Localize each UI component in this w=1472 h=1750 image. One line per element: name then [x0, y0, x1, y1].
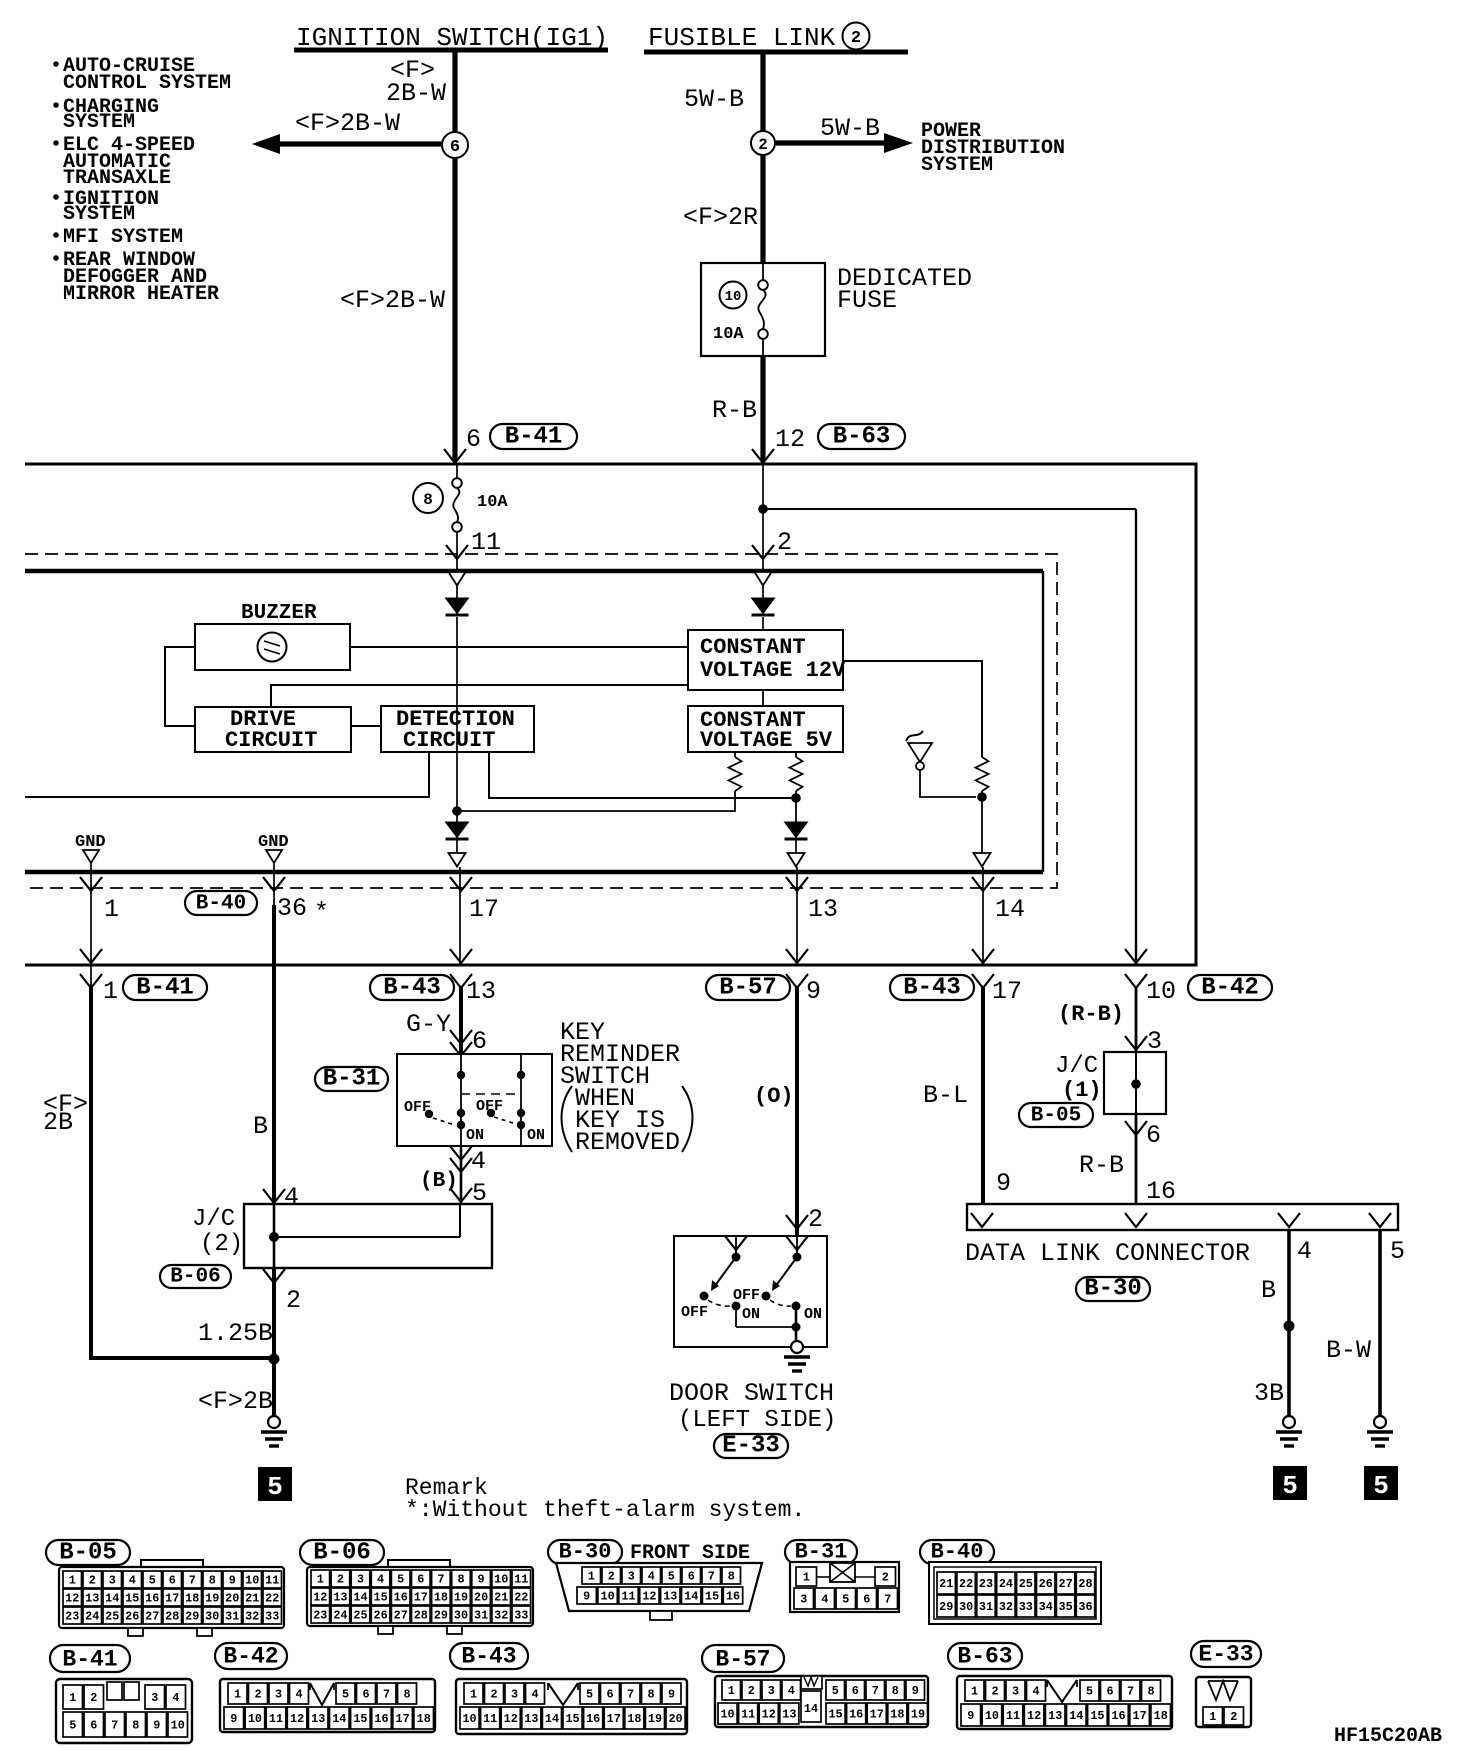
svg-text:4: 4	[172, 1691, 179, 1705]
svg-text:7: 7	[627, 1688, 634, 1702]
svg-text:8: 8	[457, 1573, 464, 1587]
svg-text:22: 22	[959, 1577, 973, 1591]
svg-text:11: 11	[1006, 1709, 1020, 1723]
svg-text:B-05: B-05	[1031, 1105, 1081, 1128]
page link 5 mid	[1273, 1466, 1307, 1500]
svg-text:21: 21	[245, 1592, 259, 1606]
svg-text:17: 17	[870, 1708, 884, 1722]
svg-text:2: 2	[608, 1570, 615, 1584]
svg-text:9: 9	[153, 1719, 160, 1733]
svg-text:E-33: E-33	[1198, 1642, 1253, 1668]
svg-text:3: 3	[800, 1593, 807, 1607]
svg-text:17: 17	[607, 1712, 621, 1726]
svg-text:21: 21	[494, 1591, 508, 1605]
svg-text:B-L: B-L	[923, 1081, 968, 1110]
svg-text:MIRROR HEATER: MIRROR HEATER	[63, 283, 219, 306]
junction connector J/C(2)	[244, 1204, 492, 1268]
svg-text:11: 11	[621, 1590, 635, 1604]
svg-text:VOLTAGE 12V: VOLTAGE 12V	[700, 658, 846, 683]
svg-text:B-63: B-63	[957, 1644, 1012, 1670]
wire: pin 36 ground lead	[273, 863, 275, 907]
constant voltage 12V block	[688, 630, 843, 690]
node 2 on fusible link feed	[751, 131, 775, 155]
wire: (O) lead to door switch	[795, 986, 799, 1236]
connector chevron pin 12 into unit	[752, 449, 774, 463]
svg-text:20: 20	[668, 1712, 682, 1726]
svg-text:<F>2B-W: <F>2B-W	[340, 286, 445, 315]
svg-text:3: 3	[628, 1570, 635, 1584]
mechanical link dashes	[461, 1093, 518, 1095]
svg-text:16: 16	[1111, 1709, 1125, 1723]
svg-text:(1): (1)	[1062, 1078, 1102, 1103]
svg-text:7: 7	[437, 1573, 444, 1587]
svg-text:23: 23	[313, 1609, 327, 1623]
svg-text:2B: 2B	[43, 1108, 73, 1137]
svg-text:33: 33	[514, 1609, 528, 1623]
svg-text:27: 27	[394, 1609, 408, 1623]
svg-text:10: 10	[1146, 977, 1176, 1006]
svg-text:1: 1	[470, 1688, 477, 1702]
svg-text:1.25B: 1.25B	[198, 1319, 273, 1348]
connector B-31 pinout	[785, 1540, 857, 1564]
connector B-57 pinout	[702, 1645, 784, 1672]
svg-text:27: 27	[1059, 1577, 1073, 1591]
svg-text:9: 9	[996, 1169, 1011, 1198]
ground DLC4	[1283, 1416, 1295, 1428]
fuse 8 10A inside unit	[456, 463, 458, 479]
svg-text:34: 34	[1039, 1600, 1053, 1614]
svg-text:25: 25	[1019, 1577, 1033, 1591]
svg-text:OFF: OFF	[404, 1099, 431, 1116]
left system list	[53, 61, 59, 67]
door switch ground	[791, 1341, 803, 1353]
svg-text:26: 26	[125, 1610, 139, 1624]
svg-text:3B: 3B	[1254, 1379, 1284, 1408]
wire: pin 1 ground lead	[90, 863, 92, 988]
svg-text:2B-W: 2B-W	[386, 79, 446, 108]
svg-text:12: 12	[775, 425, 805, 454]
svg-text:5: 5	[397, 1573, 404, 1587]
junction to B-42 branch	[758, 504, 768, 514]
svg-text:7: 7	[1127, 1685, 1134, 1699]
svg-text:9: 9	[583, 1590, 590, 1604]
svg-text:14: 14	[332, 1712, 346, 1726]
svg-text:2: 2	[758, 136, 768, 154]
svg-text:7: 7	[189, 1574, 196, 1588]
svg-text:26: 26	[374, 1609, 388, 1623]
svg-text:23: 23	[979, 1577, 993, 1591]
svg-text:B-05: B-05	[59, 1540, 117, 1567]
svg-text:6: 6	[466, 425, 481, 454]
svg-text:B-43: B-43	[383, 975, 441, 1002]
svg-text:(LEFT SIDE): (LEFT SIDE)	[678, 1407, 836, 1434]
svg-text:10: 10	[171, 1719, 185, 1733]
svg-text:7: 7	[872, 1684, 879, 1698]
wire: IG1 feed vertical 2B-W	[452, 52, 457, 461]
svg-text:29: 29	[939, 1600, 953, 1614]
wire: fusible link feed vertical 5W-B	[760, 54, 765, 264]
wire: key reminder to J/C(2) pin5	[450, 1146, 472, 1160]
svg-text:9: 9	[230, 1712, 237, 1726]
svg-text:32: 32	[999, 1600, 1013, 1614]
svg-text:13: 13	[333, 1591, 347, 1605]
svg-text:26: 26	[1039, 1577, 1053, 1591]
wire: branch arrow to power distribution	[776, 140, 886, 145]
svg-text:R-B: R-B	[712, 396, 757, 425]
svg-text:22: 22	[514, 1591, 528, 1605]
svg-text:10: 10	[985, 1709, 999, 1723]
svg-text:DATA LINK CONNECTOR: DATA LINK CONNECTOR	[965, 1239, 1250, 1268]
svg-text:SYSTEM: SYSTEM	[63, 111, 135, 134]
pin 14 triangle	[974, 853, 991, 867]
svg-text:3: 3	[275, 1688, 282, 1702]
svg-text:20: 20	[225, 1592, 239, 1606]
svg-text:6: 6	[863, 1593, 870, 1607]
svg-text:CIRCUIT: CIRCUIT	[225, 728, 317, 753]
svg-text:10: 10	[462, 1712, 476, 1726]
svg-text:17: 17	[165, 1592, 179, 1606]
connector B-30 pinout	[548, 1540, 622, 1564]
svg-text:12: 12	[313, 1591, 327, 1605]
svg-text:B-41: B-41	[505, 424, 563, 451]
chevrons B-31 pin 6	[450, 1030, 472, 1044]
svg-text:(O): (O)	[754, 1084, 794, 1109]
svg-text:32: 32	[245, 1610, 259, 1624]
svg-text:12: 12	[504, 1712, 518, 1726]
svg-text:21: 21	[939, 1577, 953, 1591]
svg-text:8: 8	[728, 1570, 735, 1584]
svg-text:TRANSAXLE: TRANSAXLE	[63, 167, 171, 190]
svg-text:6: 6	[852, 1684, 859, 1698]
wire: pin 12 feed inside unit	[762, 463, 764, 570]
svg-text:5: 5	[1373, 1471, 1389, 1501]
B-31 tag	[315, 1067, 388, 1091]
svg-text:(2): (2)	[200, 1231, 243, 1258]
svg-text:B-43: B-43	[903, 975, 961, 1002]
wire: detection out left	[25, 752, 429, 797]
svg-text:CIRCUIT: CIRCUIT	[403, 728, 495, 753]
svg-text:6: 6	[90, 1719, 97, 1733]
svg-text:19: 19	[205, 1592, 219, 1606]
svg-text:33: 33	[265, 1610, 279, 1624]
svg-text:B-41: B-41	[136, 975, 194, 1002]
wire: pin 36 lead B down to J/C(2)	[272, 905, 276, 1204]
svg-text:13: 13	[808, 895, 838, 924]
svg-text:2: 2	[1230, 1710, 1237, 1724]
svg-text:18: 18	[185, 1592, 199, 1606]
chevron pin 11 into dashed box	[446, 545, 468, 559]
svg-text:9: 9	[478, 1573, 485, 1587]
svg-text:12: 12	[65, 1592, 79, 1606]
svg-text:1: 1	[588, 1570, 595, 1584]
svg-text:11: 11	[265, 1574, 279, 1588]
svg-text:9: 9	[912, 1684, 919, 1698]
svg-text:28: 28	[165, 1610, 179, 1624]
svg-text:5: 5	[69, 1719, 76, 1733]
svg-text:4: 4	[471, 1147, 486, 1176]
page link 5 left	[258, 1467, 292, 1501]
svg-text:15: 15	[125, 1592, 139, 1606]
svg-text:B-57: B-57	[715, 1647, 770, 1673]
svg-text:2: 2	[286, 1286, 301, 1315]
node 6 on IG1 feed	[442, 132, 468, 158]
wire: sense line down through detection circuit	[456, 617, 458, 822]
svg-text:5: 5	[586, 1688, 593, 1702]
svg-text:30: 30	[205, 1610, 219, 1624]
svg-text:B-30: B-30	[559, 1540, 612, 1565]
svg-text:17: 17	[414, 1591, 428, 1605]
svg-text:1: 1	[69, 1574, 76, 1588]
svg-text:2: 2	[490, 1688, 497, 1702]
svg-text:12: 12	[290, 1712, 304, 1726]
connector E-33 pinout	[1191, 1641, 1261, 1667]
svg-text:17: 17	[469, 895, 499, 924]
svg-text:23: 23	[65, 1610, 79, 1624]
svg-text:J/C: J/C	[1055, 1053, 1098, 1080]
wire: sense line through detection box	[456, 706, 458, 752]
svg-text:FRONT SIDE: FRONT SIDE	[630, 1542, 750, 1565]
svg-text:(R-B): (R-B)	[1058, 1002, 1124, 1027]
svg-text:ON: ON	[804, 1306, 822, 1323]
fuse element 10A	[762, 263, 764, 281]
svg-text:5: 5	[1086, 1685, 1093, 1699]
svg-text:18: 18	[1154, 1709, 1168, 1723]
svg-text:16: 16	[1146, 1177, 1176, 1206]
wire: CV12V out to resistor R3	[843, 661, 982, 757]
svg-text:8: 8	[1147, 1685, 1154, 1699]
svg-text:7: 7	[708, 1570, 715, 1584]
svg-text:9: 9	[668, 1688, 675, 1702]
svg-text:31: 31	[979, 1600, 993, 1614]
svg-text:17: 17	[992, 977, 1022, 1006]
svg-text:2: 2	[748, 1684, 755, 1698]
data link connector box	[967, 1204, 1398, 1230]
svg-text:17: 17	[1133, 1709, 1147, 1723]
svg-text:6: 6	[472, 1027, 487, 1056]
svg-text:3: 3	[511, 1688, 518, 1702]
svg-text:9: 9	[806, 977, 821, 1006]
key reminder left pole	[460, 1054, 462, 1146]
svg-text:B-06: B-06	[170, 1266, 220, 1289]
svg-text:25: 25	[353, 1609, 367, 1623]
svg-text:24: 24	[333, 1609, 347, 1623]
svg-text:B-41: B-41	[62, 1647, 117, 1673]
page link 5 right	[1364, 1466, 1398, 1500]
svg-text:36: 36	[277, 894, 307, 923]
connector chevron pin 6 into unit	[444, 449, 466, 463]
diode D1 at pin 11 input	[449, 572, 466, 586]
svg-text:2: 2	[882, 1571, 889, 1585]
svg-text:18: 18	[417, 1712, 431, 1726]
chevron pin 2 into dashed box	[752, 545, 774, 559]
ETACS inner circuit box	[25, 569, 1043, 573]
svg-text:2: 2	[337, 1573, 344, 1587]
svg-text:4: 4	[1297, 1237, 1312, 1266]
svg-text:9: 9	[967, 1709, 974, 1723]
wire: pin 14 lead	[982, 867, 984, 964]
svg-text:CONTROL SYSTEM: CONTROL SYSTEM	[63, 72, 231, 95]
svg-text:<F>2R: <F>2R	[683, 203, 758, 232]
svg-text:8: 8	[647, 1688, 654, 1702]
svg-text:B: B	[1261, 1276, 1276, 1305]
svg-text:10: 10	[248, 1712, 262, 1726]
svg-text:13: 13	[524, 1712, 538, 1726]
svg-text:27: 27	[145, 1610, 159, 1624]
wire: pin 10 lead to B-42	[1125, 949, 1147, 963]
svg-text:22: 22	[265, 1592, 279, 1606]
svg-text:6: 6	[688, 1570, 695, 1584]
svg-text:14: 14	[105, 1592, 119, 1606]
key reminder right pole	[520, 1054, 522, 1146]
wire: sensor to pin 14 node	[920, 770, 976, 797]
svg-text:3: 3	[151, 1691, 158, 1705]
svg-text:7: 7	[383, 1688, 390, 1702]
wire: R1 to sense node	[457, 791, 735, 811]
ETACS outer unit box	[25, 464, 1196, 965]
svg-text:13: 13	[85, 1592, 99, 1606]
svg-text:30: 30	[959, 1600, 973, 1614]
svg-text:25: 25	[105, 1610, 119, 1624]
svg-text:13: 13	[311, 1712, 325, 1726]
svg-text:10: 10	[720, 1708, 734, 1722]
svg-text:1: 1	[234, 1688, 241, 1702]
constant voltage 5V block	[688, 706, 843, 752]
wire: DLC pin 4 ground lead B	[1287, 1230, 1291, 1416]
svg-text:5: 5	[149, 1574, 156, 1588]
wire: branch over to connector B-42 pin 10	[763, 508, 1136, 510]
svg-text:5: 5	[1282, 1471, 1298, 1501]
wire: pin 13 lead	[796, 867, 798, 964]
svg-text:10: 10	[245, 1574, 259, 1588]
svg-text:2: 2	[991, 1685, 998, 1699]
svg-text:5W-B: 5W-B	[820, 114, 880, 143]
svg-text:12: 12	[642, 1590, 656, 1604]
connector B-43 pinout	[450, 1643, 528, 1669]
svg-text:4: 4	[531, 1688, 538, 1702]
ground DLC5	[1374, 1416, 1386, 1428]
svg-text:14: 14	[995, 895, 1025, 924]
svg-text:2: 2	[808, 1205, 823, 1234]
diode D4 to pin 13	[785, 822, 808, 838]
svg-text:1: 1	[803, 1571, 810, 1585]
diode D2 at pin 2 input	[755, 572, 772, 586]
svg-text:30: 30	[454, 1609, 468, 1623]
svg-text:OFF: OFF	[733, 1287, 760, 1304]
svg-text:B: B	[253, 1112, 268, 1141]
svg-text:4: 4	[648, 1570, 655, 1584]
svg-text:FUSIBLE LINK: FUSIBLE LINK	[648, 23, 836, 53]
svg-text:6: 6	[1106, 1685, 1113, 1699]
resistor R3	[976, 757, 989, 791]
svg-text:19: 19	[648, 1712, 662, 1726]
svg-text:11: 11	[471, 528, 501, 557]
svg-text:B-40: B-40	[931, 1540, 984, 1565]
key reminder switch box B-31	[397, 1054, 552, 1146]
svg-text:15: 15	[1090, 1709, 1104, 1723]
svg-text:4: 4	[295, 1688, 302, 1702]
svg-text:32: 32	[494, 1609, 508, 1623]
svg-text:1: 1	[69, 1691, 76, 1705]
svg-text:16: 16	[145, 1592, 159, 1606]
svg-text:E-33: E-33	[722, 1433, 780, 1460]
svg-text:6: 6	[606, 1688, 613, 1702]
svg-text:7: 7	[884, 1593, 891, 1607]
connector B-41 pinout	[50, 1645, 130, 1672]
wire: drive circuit to constant voltage 12V	[271, 685, 688, 707]
svg-text:24: 24	[85, 1610, 99, 1624]
svg-text:BUZZER: BUZZER	[241, 602, 317, 625]
svg-text:B-57: B-57	[719, 975, 777, 1002]
svg-text:20: 20	[474, 1591, 488, 1605]
wire: branch arrow to other systems	[278, 141, 443, 146]
svg-text:7: 7	[111, 1719, 118, 1733]
svg-text:18: 18	[890, 1708, 904, 1722]
wire: B-L lead to data link connector	[981, 986, 985, 1204]
svg-text:R-B: R-B	[1079, 1151, 1124, 1180]
svg-text:B-63: B-63	[833, 424, 891, 451]
svg-text:11: 11	[269, 1712, 283, 1726]
svg-text:B-42: B-42	[223, 1644, 278, 1670]
svg-text:6: 6	[1146, 1121, 1161, 1150]
svg-text:16: 16	[374, 1712, 388, 1726]
svg-text:SYSTEM: SYSTEM	[921, 154, 993, 177]
dedicated fuse box	[701, 263, 825, 356]
svg-text:B-40: B-40	[196, 893, 246, 916]
svg-text:13: 13	[663, 1590, 677, 1604]
svg-text:2: 2	[851, 29, 861, 48]
svg-text:*: *	[314, 898, 329, 927]
wire: J/C(2) pin 2 out	[263, 1269, 285, 1283]
chevron J/C(1) pin 6	[1125, 1121, 1147, 1135]
svg-text:1: 1	[971, 1685, 978, 1699]
svg-text:5: 5	[472, 1179, 487, 1208]
svg-text:8: 8	[403, 1688, 410, 1702]
svg-text:*:Without theft-alarm system.: *:Without theft-alarm system.	[405, 1497, 805, 1523]
svg-text:1: 1	[317, 1573, 324, 1587]
svg-text:6: 6	[450, 138, 460, 157]
svg-text:16: 16	[849, 1708, 863, 1722]
svg-text:10: 10	[725, 289, 742, 305]
svg-text:13: 13	[782, 1708, 796, 1722]
svg-text:13: 13	[466, 977, 496, 1006]
svg-text:8: 8	[892, 1684, 899, 1698]
svg-text:B-06: B-06	[313, 1540, 371, 1567]
door switch left pole	[735, 1236, 737, 1257]
svg-text:12: 12	[1027, 1709, 1041, 1723]
svg-text:9: 9	[229, 1574, 236, 1588]
svg-text:OFF: OFF	[681, 1304, 708, 1321]
svg-text:14: 14	[804, 1702, 818, 1716]
svg-text:17: 17	[396, 1712, 410, 1726]
svg-text:B-31: B-31	[795, 1540, 848, 1565]
svg-text:SYSTEM: SYSTEM	[63, 203, 135, 226]
svg-text:2: 2	[90, 1691, 97, 1705]
svg-text:5: 5	[1390, 1237, 1405, 1266]
svg-text:6: 6	[417, 1573, 424, 1587]
svg-text:1: 1	[1209, 1710, 1216, 1724]
sensor symbol near output	[906, 731, 923, 741]
ground left	[268, 1416, 280, 1428]
svg-text:18: 18	[627, 1712, 641, 1726]
svg-text:15: 15	[565, 1712, 579, 1726]
svg-text:33: 33	[1019, 1600, 1033, 1614]
svg-text:14: 14	[1069, 1709, 1083, 1723]
svg-text:6: 6	[169, 1574, 176, 1588]
svg-text:B-42: B-42	[1201, 975, 1259, 1002]
svg-text:B-W: B-W	[1326, 1336, 1371, 1365]
junction connector J/C(1)	[1104, 1052, 1166, 1114]
svg-text:3: 3	[1012, 1685, 1019, 1699]
